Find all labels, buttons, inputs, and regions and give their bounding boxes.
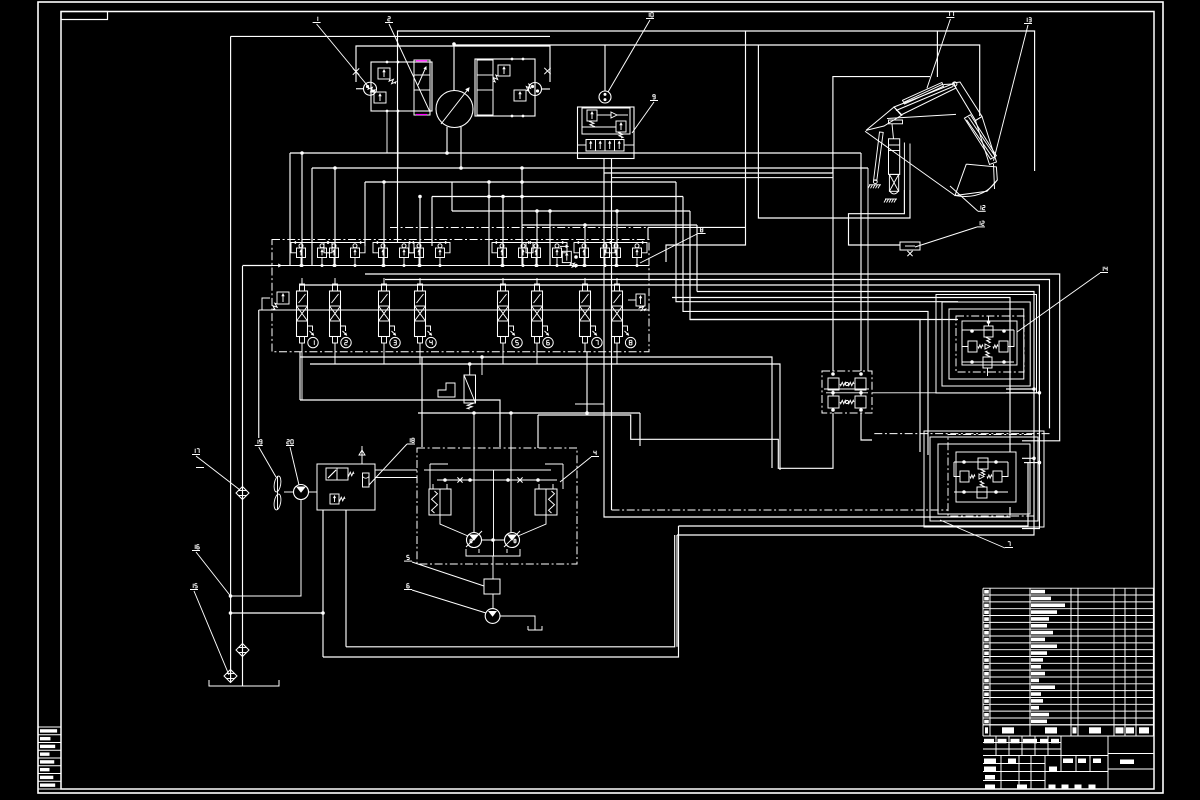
regulator left marks magenta [416, 60, 427, 62]
travel cluster outer rects [924, 431, 1044, 527]
brake cylinder right [535, 489, 557, 515]
wire loop C1 left down [666, 31, 746, 262]
wire run y225 [522, 224, 697, 226]
excavator lower chord [865, 131, 955, 195]
swing relief top [984, 326, 993, 337]
wire vertical x290 [289, 153, 291, 266]
wire y458 y462 [1022, 457, 1033, 459]
station relief [330, 494, 339, 504]
pump station block [317, 464, 375, 510]
bank section numbers [308, 337, 318, 347]
wire y389 y393 [1006, 388, 1034, 390]
regulator port dots [386, 61, 389, 64]
swing relief bottom [983, 357, 992, 368]
suction line [231, 500, 302, 596]
travel motor feed B [510, 413, 512, 533]
wire run y291 [677, 292, 1034, 536]
bank spool valves [297, 291, 308, 337]
wire x538 [537, 415, 539, 448]
wire loop C2 [454, 45, 980, 116]
label 2 leader [388, 16, 390, 18]
wire swing feeds [690, 319, 958, 321]
travel dash box [417, 448, 577, 564]
wire loop C1 [398, 31, 1035, 243]
wire y657 bottom loop [323, 526, 679, 657]
wire pump supply run y153 [290, 152, 861, 154]
label 13 leader [1026, 18, 1028, 20]
tc side valves [960, 471, 969, 482]
excavator bucket [955, 164, 997, 195]
x mark right [544, 68, 550, 74]
excavator boom cylinder thin [874, 132, 884, 181]
left pilot pump P3 [364, 82, 377, 95]
travel motor links [440, 515, 468, 536]
main relief valve [464, 375, 476, 403]
pilot manifold cells [586, 140, 624, 152]
wire pilot to C3 [604, 172, 833, 174]
title scale text [1120, 760, 1134, 765]
bank left relief [277, 292, 289, 304]
station 2pos valve [326, 468, 348, 480]
regulator right relief 2 [514, 90, 526, 101]
wire x697 down [696, 225, 698, 292]
travel motor B [505, 533, 520, 548]
wire boom tap [936, 31, 938, 77]
filter F1 [236, 487, 249, 500]
wire y400 [300, 400, 500, 447]
wire throttle to bank [647, 227, 649, 240]
filter line vertical x243 [242, 266, 244, 686]
pilot check [611, 112, 617, 118]
wire excavator base step [849, 190, 905, 245]
station accumulator [363, 473, 370, 487]
x mark left [353, 68, 359, 74]
regulator left relief 2 [374, 92, 386, 103]
wire x868 [867, 168, 869, 371]
wire run y274 [365, 274, 1060, 441]
wire vertical x312 [311, 168, 313, 266]
wire x422 [421, 357, 423, 447]
brake cylinder left [429, 489, 451, 515]
label 1 leader [317, 17, 319, 19]
wire run y297 [672, 298, 1010, 453]
labels bottom-left [194, 449, 196, 451]
excavator boom joint [953, 82, 957, 86]
wire run y526 [679, 462, 1029, 526]
wire x690 down [690, 211, 920, 452]
wire x683 down [683, 197, 928, 456]
bank feed verticals [301, 153, 303, 266]
label 11 leader [949, 12, 951, 14]
main pump circle [294, 485, 309, 500]
wire left bottom verticals [345, 510, 347, 647]
wire pilot down x611 [611, 178, 613, 510]
regulator block left [371, 62, 432, 111]
excavator main cylinder [889, 139, 900, 175]
wire run y211 [452, 210, 690, 212]
bank rail y310 [259, 309, 649, 311]
bank right relief small [562, 251, 571, 262]
wire run y182 [365, 181, 676, 183]
pilot relief B [616, 121, 626, 132]
excavator stick upper [953, 82, 982, 121]
wire y404 stub [575, 403, 604, 405]
frame top-left box [61, 12, 108, 20]
rail2 left drop x258 [258, 310, 260, 438]
excavator stick lower [976, 117, 997, 165]
tank main [209, 680, 279, 686]
regulator block right [475, 59, 535, 116]
tank return main vertical [230, 36, 232, 682]
wire step dual block [538, 413, 833, 468]
tc relief bottom [977, 487, 987, 498]
excavator stick cylinder [964, 115, 996, 159]
filter F3 [224, 670, 237, 683]
travel motor A [467, 533, 482, 548]
travel cluster inner rect [956, 452, 1016, 502]
wire loop C2 return [648, 226, 746, 228]
regulator right relief 1 [498, 65, 510, 76]
gear box [492, 556, 494, 579]
main pump P1P2 circle [436, 91, 473, 128]
pump out lines [446, 127, 448, 153]
frame left revision strip [38, 726, 61, 728]
wire dash y510 [612, 509, 949, 511]
station outputs [375, 469, 417, 471]
tc links [954, 462, 960, 477]
label 10 leader [648, 13, 650, 15]
wire run y285 [300, 285, 1039, 529]
wire run y279 [385, 280, 1050, 429]
excavator link rod [887, 114, 956, 118]
label 12a leader [980, 206, 982, 208]
wire run y168 [312, 167, 868, 169]
tc relief top [978, 458, 988, 469]
travel cluster dash box [948, 435, 1034, 517]
speed sensor circle [492, 594, 494, 609]
wire loop C3 [833, 77, 930, 173]
wire dual block right [861, 413, 872, 440]
pilot valve block [578, 107, 635, 159]
label 14 leader [1102, 267, 1104, 269]
wire loop C2 left down [758, 45, 910, 218]
wire dash y428 [874, 433, 1050, 435]
cooler fan [273, 476, 282, 493]
dual block dash box [822, 371, 872, 413]
label left-mid leader [196, 467, 204, 469]
BOM header row [983, 724, 1153, 726]
bank pilot pairs [297, 248, 306, 258]
label 9 leader [653, 94, 655, 96]
label bank leader [700, 227, 702, 229]
valve bank dash box [272, 240, 649, 352]
pump envelope [356, 46, 550, 82]
labels travel [593, 451, 595, 453]
wire y413 [418, 412, 640, 414]
pilot relief A [587, 110, 597, 121]
swing cluster outer rects [936, 295, 1037, 394]
swing dash box [956, 316, 1024, 372]
wire y357 [299, 352, 301, 400]
dual block bottom row [828, 396, 839, 408]
label tc leader [1008, 541, 1010, 543]
swing inner rect [962, 321, 1017, 365]
excavator link plate [889, 120, 903, 124]
wire y613 from filters [231, 612, 324, 614]
wire x587 [586, 352, 588, 413]
dual block top row [828, 378, 839, 390]
title block [983, 788, 1153, 790]
junction dots [452, 42, 456, 46]
wire run y535 [676, 535, 678, 647]
right pilot pump P4 [529, 83, 542, 96]
wire dual block top ports [832, 168, 834, 371]
excavator boom beak [866, 107, 902, 130]
sensor tank [500, 616, 535, 630]
wire pilot down x604 [604, 173, 1010, 517]
main relief pilot step [438, 383, 455, 397]
dual block mid rails [832, 390, 834, 396]
swing cluster links [962, 330, 968, 347]
excavator cylinder foot [889, 174, 898, 191]
motor case drain vertical [493, 470, 495, 556]
rail left extension [243, 265, 273, 267]
wire run y196 [432, 196, 683, 198]
travel motor feed A [473, 413, 475, 533]
label 12b leader [979, 221, 981, 223]
tank return top run [231, 35, 550, 37]
filter F2 [236, 644, 249, 657]
regulator bottom stubs [386, 111, 388, 153]
pilot outlet run y177 [612, 177, 833, 179]
regulator left relief 1 [378, 68, 390, 79]
wire y364 [310, 364, 780, 470]
station check top [361, 446, 363, 464]
wire y646 bottom loop [346, 535, 675, 647]
bank rail y265 [272, 265, 649, 267]
pilot gear pump [599, 91, 611, 103]
throttle valve [900, 242, 920, 250]
bank inlet arrow [272, 265, 281, 267]
travel tank bracket [466, 549, 520, 556]
BOM table [983, 587, 1153, 589]
swing side valves [968, 341, 977, 352]
excavator bucket cylinder on boom [903, 83, 944, 105]
bank bottom spool drops [301, 352, 303, 400]
bank outer dash top [390, 227, 658, 229]
wire x640 [639, 413, 641, 446]
pilot block outlets [603, 159, 605, 174]
wire x676 down [676, 182, 958, 302]
excavator boom body [894, 83, 956, 115]
travel top rails [430, 463, 448, 465]
travel rails mid [437, 479, 557, 481]
excavator base lines [903, 143, 905, 191]
bank section8 relief [636, 294, 645, 306]
excavator ground right [885, 198, 897, 200]
excavator ground left [869, 184, 881, 186]
